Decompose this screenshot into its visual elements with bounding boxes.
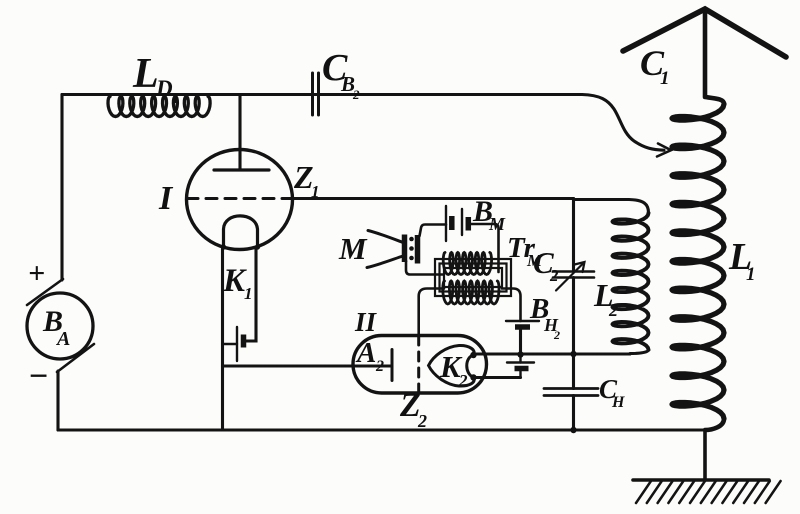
capacitor CB2: [313, 73, 319, 115]
battery BM: thin long plate 1: [445, 206, 447, 241]
junction dot K2 lead: [517, 351, 523, 357]
microphone M carbon dots: [409, 237, 414, 261]
battery BM: thick short plate 1: [449, 216, 455, 230]
inductor L1: [672, 9, 724, 430]
battery BH2 filament: stub: [519, 355, 521, 363]
wire CH lower lead: [572, 396, 575, 431]
svg-text:1: 1: [244, 284, 253, 303]
label I: [158, 180, 174, 217]
label BA plus: [28, 257, 45, 290]
wire mic to BM: [420, 225, 447, 237]
svg-text:2: 2: [608, 300, 618, 320]
wire ground lead: [703, 430, 707, 480]
inductor LD1: [108, 97, 210, 117]
svg-text:D: D: [155, 76, 173, 101]
capacitor CH: plate 2: [544, 394, 598, 397]
battery BH2 filament: short thick plate: [515, 366, 529, 372]
wire curve to antenna coil tap with arrow: [582, 95, 671, 157]
svg-text:A: A: [355, 337, 376, 369]
svg-text:2: 2: [553, 328, 560, 342]
battery BZ2: short thick plate: [515, 324, 530, 330]
label II: [354, 307, 378, 337]
antenna C1: [623, 9, 786, 57]
capacitor C2: plate 2: [553, 276, 594, 279]
svg-text:A: A: [55, 328, 70, 350]
junction dot L2/K2/C2: [570, 351, 576, 357]
microphone M left electrode: [402, 235, 408, 263]
transformer TrM secondary winding: [443, 281, 499, 304]
label K1: [222, 263, 253, 303]
wire top horizontal: [62, 93, 582, 96]
tube II anode plate A2: [391, 350, 394, 381]
svg-text:H: H: [611, 394, 625, 411]
svg-text:M: M: [338, 231, 368, 266]
capacitor CH: plate 1: [544, 387, 598, 390]
wire left vertical upper: [60, 95, 63, 281]
label C2: [533, 245, 559, 285]
battery BM: thick short plate 2: [466, 217, 472, 231]
battery BZ2: long thin plate: [506, 320, 539, 322]
svg-text:1: 1: [660, 68, 670, 89]
wire cathode left lead: [221, 248, 224, 430]
battery K1 filament: long thin plate: [236, 327, 238, 361]
wire mic to transformer primary left: [406, 261, 443, 275]
wire cathode right lead: [244, 248, 257, 341]
label K2: [439, 349, 468, 390]
wire grid Z1 to right: [291, 197, 574, 200]
wire secondary left lead to Z2: [419, 289, 444, 336]
svg-text:I: I: [158, 180, 174, 217]
wire BZ2 stub down: [519, 327, 522, 355]
svg-text:2: 2: [375, 358, 384, 375]
svg-text:−: −: [28, 358, 49, 395]
battery BM: thin long plate 2: [461, 209, 463, 235]
wire anode lead tube I: [238, 95, 241, 171]
label M: [338, 231, 368, 266]
battery BA: [27, 279, 94, 372]
transformer TrM primary winding: [443, 253, 491, 275]
tube I cathode filament: [221, 216, 260, 250]
label LD1: [132, 51, 179, 107]
battery K1 filament: short thick plate: [241, 335, 247, 348]
junction dot bottom wire: [570, 427, 576, 433]
tube I anode plate: [214, 168, 269, 171]
svg-text:2: 2: [458, 371, 468, 390]
microphone M horn: [367, 231, 403, 268]
label A2: [355, 337, 384, 375]
battery BH2 filament: long thin plate: [507, 361, 534, 363]
svg-text:2: 2: [352, 87, 360, 102]
wire left vertical lower: [56, 371, 59, 430]
label BH2: [529, 293, 560, 342]
svg-text:1: 1: [172, 92, 179, 107]
microphone M right electrode: [415, 235, 421, 264]
capacitor C2 variable: upper lead: [572, 199, 575, 272]
battery BH2 filament: stub2: [519, 369, 521, 378]
tube I envelope: [187, 150, 293, 250]
wire C2 lower lead: [572, 278, 575, 355]
tube II cathode K2: [429, 345, 477, 386]
svg-text:+: +: [28, 257, 45, 290]
svg-text:1: 1: [746, 264, 756, 285]
wire bottom horizontal: [58, 428, 705, 431]
label BM: [472, 195, 506, 234]
tube II envelope: [353, 336, 487, 394]
label Z2: [399, 387, 427, 431]
capacitor C2: plate 1: [553, 270, 594, 273]
svg-text:L: L: [132, 51, 159, 97]
wire secondary right lead to BZ2: [502, 289, 521, 322]
label CB2: [322, 47, 360, 102]
inductor L2: [574, 200, 649, 354]
ground: [633, 480, 781, 503]
svg-text:II: II: [354, 307, 378, 337]
label TrM: [507, 232, 543, 270]
tube II grid Z2 (dashed): [417, 336, 420, 392]
label CH: [599, 374, 625, 411]
label Z1: [293, 159, 320, 201]
label C1: [640, 43, 670, 89]
tube I grid (dashed): [187, 197, 291, 200]
label L1: [728, 236, 756, 285]
capacitor C2: arrow: [556, 262, 585, 291]
wire K2 bottom lead: [474, 376, 521, 379]
label BA: [42, 305, 70, 350]
svg-text:2: 2: [417, 411, 427, 431]
label L2: [593, 277, 618, 320]
svg-text:2: 2: [549, 266, 559, 285]
capacitor CH: upper lead: [572, 354, 575, 389]
wire BM to transformer right: [468, 224, 498, 272]
wire K2 top lead: [474, 352, 630, 355]
wire stub to long plate: [223, 343, 238, 345]
wire to anode A2: [223, 364, 393, 367]
transformer TrM core: [435, 259, 511, 296]
label BA minus: [28, 358, 49, 395]
